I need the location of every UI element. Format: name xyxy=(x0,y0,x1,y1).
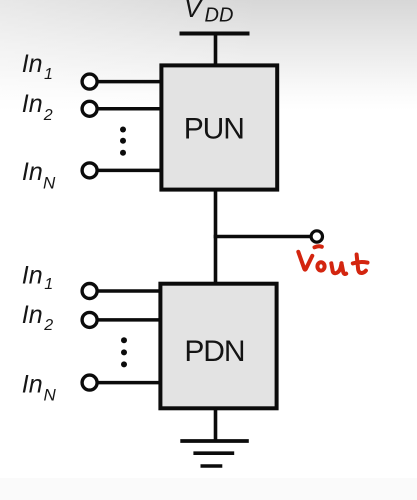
svg-text:DD: DD xyxy=(205,5,234,27)
svg-text:1: 1 xyxy=(44,66,53,83)
label In1 (PUN input 1) xyxy=(22,50,53,83)
terminal Vout xyxy=(311,231,322,242)
terminal InN (PDN) xyxy=(82,375,97,390)
svg-text:In: In xyxy=(22,371,43,399)
ground xyxy=(180,441,249,466)
svg-text:In: In xyxy=(22,158,43,186)
wire InN to PUN xyxy=(98,169,162,173)
svg-text:N: N xyxy=(43,174,56,193)
wire InN to PDN xyxy=(98,381,162,385)
label InN (PUN input N) xyxy=(22,158,56,192)
svg-text:In: In xyxy=(22,50,43,78)
svg-text:In: In xyxy=(22,261,43,289)
wire output branch to Vout terminal xyxy=(214,235,310,239)
ellipsis dots (PUN inputs) xyxy=(120,127,126,156)
wire In1 to PDN xyxy=(98,289,162,293)
svg-text:In: In xyxy=(22,301,43,329)
terminal In2 (PUN) xyxy=(82,101,97,116)
svg-text:In: In xyxy=(22,90,43,118)
label In2 (PUN input 2) xyxy=(22,90,53,124)
svg-text:N: N xyxy=(44,385,57,404)
power rail VDD xyxy=(180,32,250,36)
block PUN xyxy=(161,65,277,189)
label In2 (PDN input 2) xyxy=(22,301,53,334)
terminal In2 (PDN) xyxy=(82,312,97,327)
wire VDD to PUN xyxy=(214,34,218,67)
svg-text:PDN: PDN xyxy=(184,335,244,368)
wire In2 to PUN xyxy=(98,107,162,111)
svg-text:2: 2 xyxy=(43,107,53,124)
svg-text:PUN: PUN xyxy=(184,113,244,146)
svg-text:1: 1 xyxy=(44,276,53,293)
label Vout (handwritten, red) xyxy=(298,246,367,274)
terminal InN (PUN) xyxy=(82,163,97,178)
wire PDN to ground xyxy=(214,408,218,441)
terminal In1 (PUN) xyxy=(82,74,97,89)
net VDD label xyxy=(184,0,233,27)
label In1 (PDN input 1) xyxy=(22,261,53,292)
wire PUN to PDN (output trunk) xyxy=(214,189,218,284)
wire In2 to PDN xyxy=(98,318,162,322)
svg-text:2: 2 xyxy=(43,317,53,334)
terminal In1 (PDN) xyxy=(82,284,97,299)
wire In1 to PUN xyxy=(98,80,162,84)
ellipsis dots (PDN inputs) xyxy=(121,337,127,367)
block PDN xyxy=(160,284,276,409)
label InN (PDN input N) xyxy=(22,371,57,405)
svg-text:V: V xyxy=(184,0,204,23)
